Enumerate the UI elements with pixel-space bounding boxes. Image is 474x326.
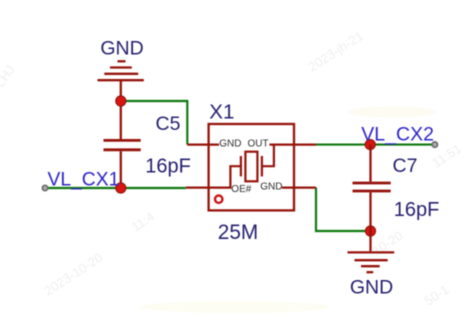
svg-text:16pF: 16pF: [394, 199, 440, 221]
svg-text:VL_CX2: VL_CX2: [361, 123, 434, 145]
svg-text:C7: C7: [393, 155, 418, 177]
svg-text:C5: C5: [156, 113, 181, 135]
svg-text:OUT: OUT: [248, 139, 269, 150]
svg-text:GND: GND: [219, 139, 241, 150]
svg-text:VL_CX1: VL_CX1: [48, 170, 120, 191]
svg-text:25M: 25M: [218, 221, 258, 244]
svg-text:GND: GND: [260, 182, 282, 193]
svg-text:X1: X1: [209, 101, 234, 124]
svg-text:GND: GND: [100, 38, 143, 60]
svg-text:GND: GND: [350, 276, 393, 298]
svg-text:OE#: OE#: [231, 184, 251, 195]
svg-text:16pF: 16pF: [145, 156, 191, 178]
